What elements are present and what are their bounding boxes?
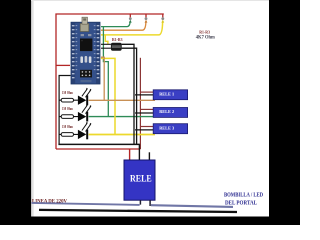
svg-text:4K7 Ohm: 4K7 Ohm [196, 36, 216, 41]
svg-text:RELE: RELE [130, 175, 152, 185]
svg-text:RELE 2: RELE 2 [159, 109, 175, 114]
svg-text:R1-R3: R1-R3 [112, 38, 123, 42]
svg-text:BOMBILLA / LED: BOMBILLA / LED [224, 192, 263, 198]
svg-text:RELE 3: RELE 3 [159, 125, 175, 130]
svg-text:DEL PORTAL: DEL PORTAL [225, 200, 257, 206]
svg-text:150 Ohm: 150 Ohm [62, 106, 73, 111]
svg-text:RELE 1: RELE 1 [159, 92, 175, 97]
svg-text:150 Ohm: 150 Ohm [62, 90, 73, 95]
svg-text:R1-R3: R1-R3 [199, 29, 210, 34]
svg-text:150 Ohm: 150 Ohm [62, 124, 73, 129]
